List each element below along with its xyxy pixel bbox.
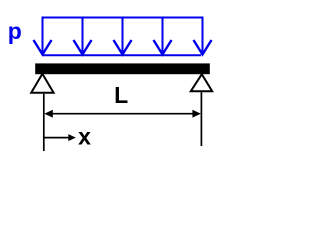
svg-text:L: L bbox=[114, 82, 128, 108]
load arrow 1 bbox=[34, 17, 52, 55]
load arrow 4 bbox=[154, 18, 172, 55]
load arrow 5 bbox=[194, 17, 212, 55]
svg-text:x: x bbox=[78, 123, 91, 149]
svg-text:p: p bbox=[8, 18, 22, 44]
beam bbox=[35, 63, 210, 74]
dimension arrowhead right bbox=[192, 110, 201, 118]
support A (left pin) bbox=[31, 74, 53, 93]
wire: load top line bbox=[42, 17, 204, 19]
extension line right bbox=[200, 92, 202, 146]
dimension arrowhead left bbox=[44, 110, 53, 118]
load arrow 3 bbox=[114, 18, 132, 55]
wire: load bottom line bbox=[43, 54, 201, 56]
load arrow 2 bbox=[74, 18, 92, 55]
x axis arrowhead bbox=[68, 134, 76, 141]
extension line left bbox=[43, 94, 45, 151]
x axis arrow bbox=[44, 137, 70, 139]
dimension line L bbox=[46, 113, 199, 115]
support B (right pin) bbox=[191, 74, 212, 91]
